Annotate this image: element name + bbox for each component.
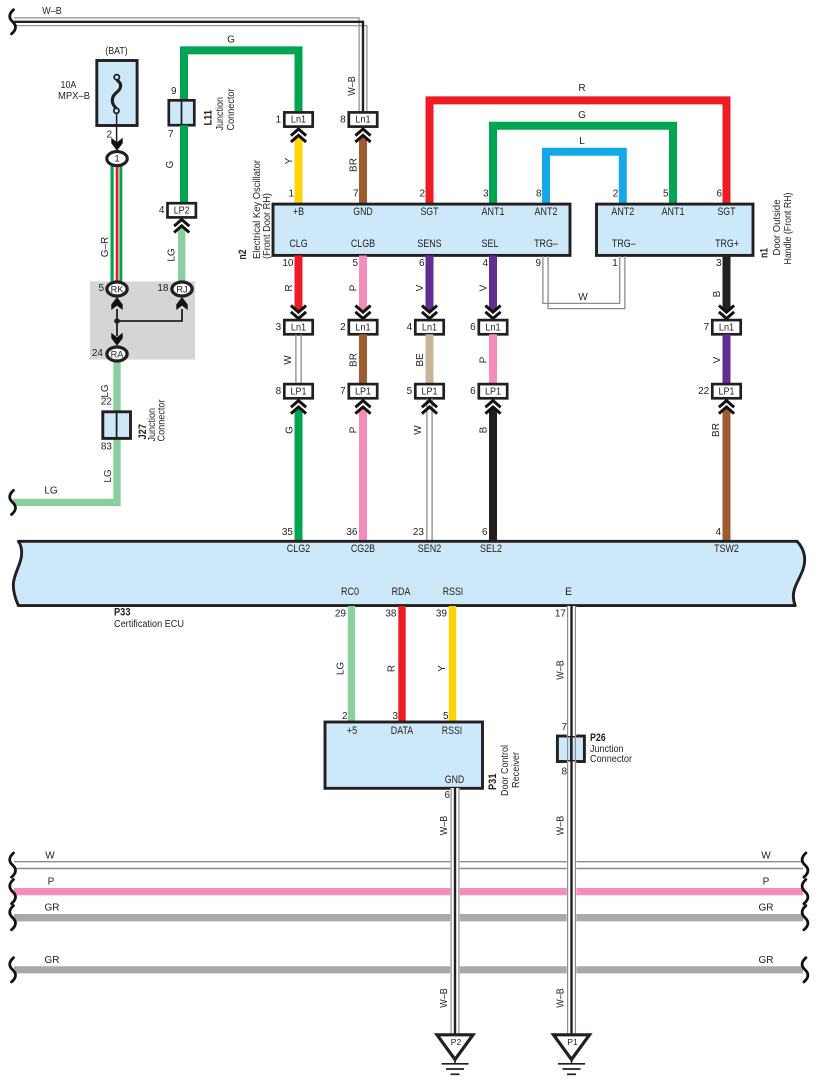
junction connector P26 box xyxy=(557,736,584,762)
wire BR (LP1-22 to TSW2) xyxy=(723,405,731,541)
svg-text:RSSI: RSSI xyxy=(443,586,464,598)
svg-text:V: V xyxy=(415,284,426,291)
wire GR harness 1 xyxy=(14,914,803,921)
svg-text:P33: P33 xyxy=(114,607,131,619)
svg-text:P: P xyxy=(349,426,360,433)
chevron Ln1 pin8 xyxy=(355,129,370,142)
svg-text:P: P xyxy=(763,877,770,888)
svg-text:8: 8 xyxy=(536,188,542,199)
wire P (CLGB to Ln1-2) xyxy=(359,256,367,314)
svg-text:29: 29 xyxy=(335,609,347,620)
fuse 10A MPX-B box xyxy=(97,61,137,126)
svg-text:36: 36 xyxy=(346,527,358,538)
wire LG (RA to left edge) xyxy=(13,359,117,502)
svg-text:RDA: RDA xyxy=(392,586,412,598)
svg-text:BR: BR xyxy=(349,158,360,172)
node RJ circle xyxy=(172,282,192,296)
svg-text:RK: RK xyxy=(111,285,125,295)
svg-text:7: 7 xyxy=(704,322,710,333)
svg-text:8: 8 xyxy=(561,766,567,777)
svg-text:LP1: LP1 xyxy=(485,386,501,397)
svg-text:LP1: LP1 xyxy=(719,386,735,397)
svg-text:SGT: SGT xyxy=(420,206,439,218)
svg-text:L11: L11 xyxy=(203,110,215,126)
connector Ln1 pin1 xyxy=(276,112,313,126)
svg-text:2: 2 xyxy=(419,188,425,199)
svg-text:Ln1: Ln1 xyxy=(719,322,734,333)
svg-text:22: 22 xyxy=(698,386,710,397)
wire W harness (double line) xyxy=(14,862,803,869)
svg-text:CLG2: CLG2 xyxy=(287,543,310,555)
squiggle P left xyxy=(10,880,16,904)
wire G-R (green/red stripe) xyxy=(112,160,121,282)
chevron into Ln1 pin6 xyxy=(485,306,500,319)
svg-text:GR: GR xyxy=(45,955,60,966)
svg-text:Certification ECU: Certification ECU xyxy=(114,619,184,630)
white backing P31 GND drop xyxy=(450,788,460,1035)
connector Ln1 pin7 xyxy=(704,320,741,334)
svg-text:LG: LG xyxy=(103,469,114,483)
svg-text:P: P xyxy=(479,356,490,363)
svg-text:7: 7 xyxy=(353,188,359,199)
svg-text:GND: GND xyxy=(445,774,465,786)
svg-text:DATA: DATA xyxy=(391,725,414,737)
svg-text:ANT1: ANT1 xyxy=(482,206,505,218)
svg-text:BR: BR xyxy=(711,423,722,437)
svg-text:G: G xyxy=(578,110,586,121)
svg-text:5: 5 xyxy=(443,711,449,722)
door outside handle n1 box xyxy=(597,204,754,255)
svg-text:CLGB: CLGB xyxy=(351,238,375,250)
door control receiver P31 box xyxy=(325,722,483,788)
svg-text:W–B: W–B xyxy=(556,988,567,1008)
wire R (CLG to Ln1-3) xyxy=(295,256,303,314)
chevron into Ln1 pin3 xyxy=(291,306,306,319)
svg-text:GR: GR xyxy=(759,955,774,966)
chevron into Ln1 pin2 xyxy=(355,306,370,319)
svg-text:L: L xyxy=(579,136,585,147)
svg-text:2: 2 xyxy=(613,188,619,199)
svg-text:7: 7 xyxy=(340,386,346,397)
svg-text:6: 6 xyxy=(470,386,476,397)
wire W-B (P31 GND to ground P2) xyxy=(451,788,459,1035)
svg-text:GR: GR xyxy=(45,903,60,914)
svg-text:5: 5 xyxy=(98,283,104,294)
wire G (ANT1 to ANT1) xyxy=(493,126,673,204)
connector Ln1 pin3 xyxy=(276,320,313,334)
svg-text:G–R: G–R xyxy=(100,237,111,258)
wire V (SENS to Ln1-4) xyxy=(426,256,434,314)
svg-text:TRG+: TRG+ xyxy=(715,238,739,250)
svg-text:10: 10 xyxy=(282,258,294,269)
wire V (SEL to Ln1-6) xyxy=(489,256,497,314)
svg-text:Receiver: Receiver xyxy=(511,751,522,788)
svg-text:(BAT): (BAT) xyxy=(105,46,127,57)
wire R (RDA to DATA) xyxy=(398,606,405,722)
squiggle GR1 right xyxy=(802,906,808,930)
svg-text:R: R xyxy=(578,83,585,94)
svg-text:TRG–: TRG– xyxy=(612,238,636,250)
wire LG (RC0 to +5) xyxy=(348,606,355,722)
svg-text:6: 6 xyxy=(419,258,425,269)
svg-text:CLG: CLG xyxy=(289,238,307,250)
svg-text:ANT2: ANT2 xyxy=(611,206,634,218)
squiggle W right xyxy=(802,853,808,877)
svg-text:RJ: RJ xyxy=(176,285,187,295)
svg-text:4: 4 xyxy=(407,322,413,333)
wire P (LP1-7 to CG2B) xyxy=(359,405,367,541)
svg-text:39: 39 xyxy=(436,609,448,620)
junction connector L11 box xyxy=(169,100,195,125)
squiggle GR2 left xyxy=(10,958,16,982)
svg-text:R: R xyxy=(387,665,398,672)
svg-text:W–B: W–B xyxy=(42,6,62,17)
svg-text:W: W xyxy=(45,850,55,861)
svg-text:ANT2: ANT2 xyxy=(535,206,558,218)
svg-text:G: G xyxy=(285,426,296,434)
svg-text:Ln1: Ln1 xyxy=(355,322,370,333)
svg-text:9: 9 xyxy=(535,258,541,269)
svg-text:B: B xyxy=(712,290,723,297)
arrow into node 1 xyxy=(111,138,122,151)
connector LP1 pin5 xyxy=(407,384,444,398)
connector Ln1 pin6 xyxy=(470,320,507,334)
svg-text:Ln1: Ln1 xyxy=(485,322,500,333)
svg-text:SEL2: SEL2 xyxy=(480,543,502,555)
svg-text:+5: +5 xyxy=(347,725,357,737)
svg-text:Connector: Connector xyxy=(590,754,633,765)
svg-text:SEN2: SEN2 xyxy=(418,543,441,555)
wire BR (Ln1-8 to GND) xyxy=(359,134,367,204)
svg-text:4: 4 xyxy=(482,258,488,269)
connector Ln1 pin8 xyxy=(340,112,377,126)
svg-text:+B: +B xyxy=(293,206,304,218)
node RA circle xyxy=(107,347,127,361)
svg-text:22: 22 xyxy=(101,397,113,408)
svg-text:Ln1: Ln1 xyxy=(422,322,437,333)
svg-text:TSW2: TSW2 xyxy=(714,543,739,555)
connector LP1 pin22 xyxy=(698,384,741,398)
svg-text:P: P xyxy=(48,877,55,888)
chevron below LP1 pin22 xyxy=(719,401,734,414)
svg-text:LP1: LP1 xyxy=(422,386,438,397)
svg-text:SGT: SGT xyxy=(717,206,736,218)
junction connector J27 box xyxy=(103,412,131,439)
connector LP1 pin8 xyxy=(276,384,313,398)
svg-text:R: R xyxy=(284,284,295,291)
wire BR (Ln1-2 to LP1-7) xyxy=(359,334,367,384)
svg-text:3: 3 xyxy=(392,711,398,722)
relay block (shaded area) xyxy=(90,282,195,360)
svg-text:LP2: LP2 xyxy=(174,205,190,216)
svg-text:GND: GND xyxy=(353,206,373,218)
wire Y (Ln1-1 to +B) xyxy=(295,134,303,204)
svg-text:G: G xyxy=(227,35,235,46)
ground P2 xyxy=(437,1035,473,1075)
wire Y (RSSI to RSSI) xyxy=(449,606,456,722)
svg-text:TRG–: TRG– xyxy=(534,238,558,250)
wire W (LP1-5 to SEN2) xyxy=(427,398,432,541)
svg-text:W: W xyxy=(578,292,588,303)
certification ECU P33 band xyxy=(13,541,804,605)
svg-text:5: 5 xyxy=(407,386,413,397)
svg-text:ANT1: ANT1 xyxy=(662,206,685,218)
svg-text:RA: RA xyxy=(111,350,125,360)
svg-text:n2: n2 xyxy=(237,249,249,259)
connector Ln1 pin4 xyxy=(407,320,444,334)
svg-text:1: 1 xyxy=(288,188,294,199)
svg-text:Ln1: Ln1 xyxy=(291,115,306,126)
wire BE (Ln1-4 to LP1-5) xyxy=(426,334,434,384)
chevron below LP1 pin7 xyxy=(355,401,370,414)
svg-text:n1: n1 xyxy=(759,248,771,258)
svg-text:(Front Door RH): (Front Door RH) xyxy=(262,193,273,259)
ground P1 xyxy=(554,1035,590,1075)
svg-text:E: E xyxy=(565,586,572,598)
chevron Ln1 pin1 xyxy=(291,129,306,142)
relay internal wiring xyxy=(117,309,182,336)
svg-text:LG: LG xyxy=(44,486,58,497)
svg-text:5: 5 xyxy=(352,258,358,269)
chevron into Ln1 pin7 xyxy=(719,306,734,319)
svg-text:38: 38 xyxy=(385,609,397,620)
svg-text:2: 2 xyxy=(340,322,346,333)
svg-text:35: 35 xyxy=(282,527,294,538)
arrow into RA xyxy=(111,333,122,346)
wire B (LP1-6 to SEL2) xyxy=(489,405,497,541)
squiggle GR1 left xyxy=(10,906,16,930)
svg-text:17: 17 xyxy=(555,609,567,620)
wire G (L11 to LP2) xyxy=(180,125,188,203)
svg-text:P2: P2 xyxy=(451,1037,462,1047)
svg-text:V: V xyxy=(712,356,723,363)
svg-text:5: 5 xyxy=(663,188,669,199)
wire P (Ln1-6 to LP1-6) xyxy=(489,334,497,384)
svg-text:P1: P1 xyxy=(567,1037,578,1047)
svg-text:6: 6 xyxy=(470,322,476,333)
svg-text:10A: 10A xyxy=(61,80,77,91)
svg-text:6: 6 xyxy=(482,527,488,538)
svg-text:MPX–B: MPX–B xyxy=(58,91,90,102)
svg-text:SENS: SENS xyxy=(417,238,441,250)
junction dot xyxy=(114,318,120,324)
wire W (Ln1-3 to LP1-8) xyxy=(296,334,301,384)
svg-text:CG2B: CG2B xyxy=(351,543,375,555)
wire G (LP1-8 to CLG2) xyxy=(295,405,303,541)
wire B (TRG+ to Ln1-7) xyxy=(723,256,731,314)
svg-text:2: 2 xyxy=(342,711,348,722)
svg-text:6: 6 xyxy=(716,188,722,199)
connector LP2 pin4 xyxy=(159,203,196,217)
arrow into RK xyxy=(111,297,122,310)
chevron LP2 xyxy=(174,220,189,233)
svg-text:Handle (Front RH): Handle (Front RH) xyxy=(783,193,794,265)
squiggle P right xyxy=(802,880,808,904)
svg-text:9: 9 xyxy=(171,86,177,97)
svg-text:RSSI: RSSI xyxy=(442,725,463,737)
svg-text:SEL: SEL xyxy=(482,238,499,250)
svg-text:W–B: W–B xyxy=(556,660,567,680)
wire R (SGT to SGT) xyxy=(430,100,727,204)
svg-text:LG: LG xyxy=(336,662,347,676)
svg-text:LP1: LP1 xyxy=(291,386,307,397)
svg-text:W–B: W–B xyxy=(439,988,450,1008)
svg-text:18: 18 xyxy=(157,283,169,294)
svg-text:W: W xyxy=(283,355,294,365)
squiggle W left xyxy=(10,853,16,877)
connector LP1 pin6 xyxy=(470,384,507,398)
svg-text:Door Control: Door Control xyxy=(500,745,511,796)
squiggle GR2 right xyxy=(802,958,808,982)
arrow into RJ xyxy=(176,297,187,310)
wire W-B (E to ground P1) xyxy=(568,606,576,1035)
svg-text:83: 83 xyxy=(101,442,113,453)
svg-text:Connector: Connector xyxy=(157,399,168,442)
svg-text:W–B: W–B xyxy=(347,76,358,96)
svg-text:G: G xyxy=(165,160,176,168)
svg-text:Y: Y xyxy=(437,665,448,672)
svg-text:BR: BR xyxy=(349,353,360,367)
svg-text:W–B: W–B xyxy=(439,816,450,836)
svg-text:LG: LG xyxy=(167,248,178,262)
svg-text:8: 8 xyxy=(276,386,282,397)
svg-text:4: 4 xyxy=(159,205,165,216)
svg-text:8: 8 xyxy=(340,114,346,125)
wire V (Ln1-7 to LP1-22) xyxy=(723,334,731,384)
svg-text:LP1: LP1 xyxy=(355,386,371,397)
svg-text:3: 3 xyxy=(716,258,722,269)
svg-text:7: 7 xyxy=(168,129,174,140)
wire GR harness 2 xyxy=(14,966,803,973)
svg-text:W–B: W–B xyxy=(556,816,567,836)
svg-text:RC0: RC0 xyxy=(341,586,359,598)
svg-text:23: 23 xyxy=(413,527,425,538)
svg-text:V: V xyxy=(479,284,490,291)
wire LG (LP2 to RJ) xyxy=(178,224,185,282)
chevron into Ln1 pin4 xyxy=(422,306,437,319)
svg-text:1: 1 xyxy=(276,114,282,125)
wire W-B main feed (horizontal+vertical) xyxy=(14,18,367,113)
svg-text:Door Outside: Door Outside xyxy=(772,199,783,255)
connector LP1 pin7 xyxy=(340,384,377,398)
svg-text:Junction: Junction xyxy=(215,97,226,131)
svg-text:6: 6 xyxy=(444,790,450,801)
svg-text:Ln1: Ln1 xyxy=(291,322,306,333)
svg-text:1: 1 xyxy=(612,258,618,269)
svg-text:1: 1 xyxy=(114,154,119,165)
svg-text:Ln1: Ln1 xyxy=(355,115,370,126)
wire break squiggle top-left xyxy=(10,10,16,34)
white backing E drop 2 xyxy=(567,762,577,1036)
svg-text:W: W xyxy=(413,425,424,435)
white backing E drop xyxy=(567,606,577,736)
wire G loop (L11 to Ln1 pin1) xyxy=(184,50,299,112)
wire P harness xyxy=(14,888,803,895)
wire break squiggle LG xyxy=(10,490,16,514)
wire fuse output xyxy=(116,113,118,144)
svg-text:4: 4 xyxy=(715,527,721,538)
svg-text:B: B xyxy=(479,426,490,433)
svg-text:W: W xyxy=(761,850,771,861)
chevron below LP1 pin6 xyxy=(485,401,500,414)
node RK circle xyxy=(107,282,127,296)
svg-text:24: 24 xyxy=(92,348,104,359)
connector Ln1 pin2 xyxy=(340,320,377,334)
electrical key oscillator n2 box xyxy=(273,204,570,255)
svg-text:7: 7 xyxy=(561,722,567,733)
svg-text:Connector: Connector xyxy=(226,88,237,131)
svg-text:Y: Y xyxy=(284,157,295,164)
wire W loop (TRG- to TRG-) xyxy=(543,256,625,309)
svg-text:BE: BE xyxy=(415,353,426,367)
svg-text:P31: P31 xyxy=(487,773,499,790)
svg-text:P: P xyxy=(349,284,360,291)
svg-text:3: 3 xyxy=(276,322,282,333)
chevron below LP1 pin5 xyxy=(422,401,437,414)
chevron below LP1 pin8 xyxy=(291,401,306,414)
node 1 circle xyxy=(107,152,127,166)
svg-text:GR: GR xyxy=(759,903,774,914)
svg-text:3: 3 xyxy=(483,188,489,199)
svg-text:P26: P26 xyxy=(590,732,606,744)
wire L (ANT2 to ANT2) xyxy=(546,152,623,204)
